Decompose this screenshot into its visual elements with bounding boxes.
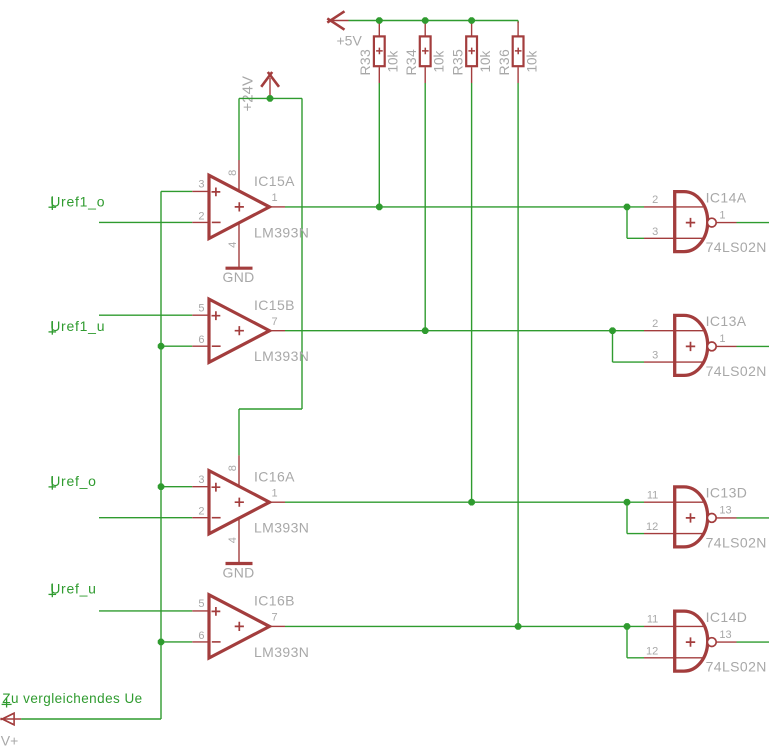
- junction IC16B output branch to gate: [624, 623, 631, 630]
- wire IC15A output row: [285, 206, 644, 208]
- ground: [223, 564, 255, 581]
- junction IC15A output branch to gate: [624, 204, 631, 211]
- svg-text:R36: R36: [496, 49, 512, 76]
- junction IC16A output with resistor line: [468, 499, 475, 506]
- junction IC15B output branch to gate: [609, 327, 616, 334]
- svg-text:LM393N: LM393N: [254, 644, 309, 660]
- svg-text:Zu vergleichendes Ue: Zu vergleichendes Ue: [2, 691, 142, 706]
- svg-text:6: 6: [198, 334, 204, 346]
- svg-text:10k: 10k: [432, 50, 447, 72]
- svg-text:1: 1: [719, 209, 725, 221]
- wire +5V rail: [349, 20, 519, 22]
- svg-text:1: 1: [719, 333, 725, 345]
- wire +24V right rail down: [301, 98, 303, 409]
- op-amp IC15B (LM393N): [192, 297, 309, 364]
- svg-text:1: 1: [272, 192, 278, 204]
- wire Ue vertical line: [160, 191, 162, 719]
- svg-text:IC13A: IC13A: [706, 313, 747, 329]
- svg-text:2: 2: [198, 506, 204, 518]
- svg-text:12: 12: [646, 645, 658, 657]
- svg-text:GND: GND: [223, 564, 255, 580]
- svg-text:10k: 10k: [478, 50, 493, 72]
- svg-text:R35: R35: [449, 49, 465, 76]
- svg-text:74LS02N: 74LS02N: [706, 239, 767, 255]
- svg-text:LM393N: LM393N: [254, 348, 309, 364]
- svg-text:7: 7: [272, 316, 278, 328]
- wire Uref_o to IC16A pin 2: [99, 517, 192, 519]
- svg-text:2: 2: [198, 210, 204, 222]
- svg-text:4: 4: [227, 537, 239, 543]
- svg-text:LM393N: LM393N: [254, 520, 309, 536]
- svg-text:5: 5: [198, 598, 204, 610]
- ground: [223, 268, 255, 285]
- svg-text:13: 13: [719, 505, 731, 517]
- svg-text:4: 4: [227, 242, 239, 248]
- svg-text:11: 11: [647, 489, 658, 501]
- wire Uref_u to IC16B pin 5: [99, 610, 192, 612]
- junction Ue to IC16B pin 6: [158, 639, 165, 646]
- svg-text:3: 3: [198, 474, 204, 486]
- wire IC15B output row: [285, 330, 644, 332]
- junction IC15A output with resistor line: [376, 204, 383, 211]
- junction on +5V rail at R35: [468, 17, 475, 24]
- wire IC13D output to edge: [737, 517, 769, 519]
- wire Ue to IC15B pin 6: [161, 345, 192, 347]
- svg-text:Uref_o: Uref_o: [50, 473, 97, 489]
- resistor R35 (10k): [449, 22, 493, 84]
- net label Uref1_u: [49, 318, 106, 335]
- +5V supply arrow: [327, 11, 348, 29]
- resistor R36 (10k): [496, 22, 540, 84]
- svg-text:IC15B: IC15B: [254, 297, 295, 313]
- wire rail corner down to R36: [517, 21, 519, 24]
- junction at +24V arrow: [267, 95, 274, 102]
- wire IC14A output to edge: [737, 222, 769, 224]
- resistor R34 (10k): [403, 22, 447, 84]
- wire Uref1_u to IC15B pin 5: [99, 314, 192, 316]
- wire Ue to IC16B pin 6: [161, 641, 192, 643]
- svg-text:13: 13: [719, 629, 731, 641]
- svg-text:74LS02N: 74LS02N: [706, 534, 767, 550]
- svg-text:IC13D: IC13D: [706, 485, 748, 501]
- NOR gate IC13D (74LS02N): [644, 485, 767, 551]
- wire branch down to lower gate input: [626, 626, 628, 657]
- svg-text:LM393N: LM393N: [254, 224, 309, 240]
- wire Ue top corner to IC15A pin 3: [161, 190, 192, 192]
- svg-text:74LS02N: 74LS02N: [706, 363, 767, 379]
- wire IC14D output to edge: [737, 641, 769, 643]
- svg-text:+5V: +5V: [337, 33, 363, 49]
- wire Uref1_o to IC15A pin 2: [99, 221, 192, 223]
- resistor R33 (10k): [357, 22, 401, 84]
- svg-text:7: 7: [272, 612, 278, 624]
- svg-text:IC14A: IC14A: [706, 189, 747, 205]
- V+ supply arrow: [1, 713, 22, 725]
- junction IC16B output with resistor line: [515, 623, 522, 630]
- svg-text:6: 6: [198, 630, 204, 642]
- wire from R36 down to output row: [517, 83, 519, 626]
- NOR gate IC14A (74LS02N): [644, 189, 767, 255]
- wire IC13A output to edge: [737, 345, 769, 347]
- svg-text:74LS02N: 74LS02N: [706, 659, 767, 675]
- junction on +5V rail at R33: [376, 17, 383, 24]
- op-amp IC15A (LM393N): [192, 160, 309, 268]
- svg-text:+24V: +24V: [240, 76, 257, 111]
- wire from R35 down to output row: [471, 83, 473, 502]
- wire IC16A output row: [285, 501, 644, 503]
- net label Uref_u: [49, 581, 97, 598]
- svg-text:10k: 10k: [386, 50, 401, 72]
- svg-text:11: 11: [647, 614, 658, 626]
- svg-text:Uref1_o: Uref1_o: [50, 193, 105, 209]
- junction IC15B output with resistor line: [422, 327, 429, 334]
- svg-text:3: 3: [652, 226, 658, 238]
- wire from R34 down to output row: [424, 83, 426, 331]
- wire branch down to lower gate input: [612, 331, 614, 362]
- svg-text:V+: V+: [1, 733, 19, 749]
- wire from R33 down to output row: [378, 83, 380, 207]
- svg-text:12: 12: [646, 521, 658, 533]
- svg-text:2: 2: [652, 318, 658, 330]
- svg-text:IC15A: IC15A: [254, 173, 295, 189]
- svg-text:IC16A: IC16A: [254, 469, 295, 485]
- junction Ue to IC16A pin 3: [158, 483, 165, 490]
- svg-text:R34: R34: [403, 49, 419, 76]
- svg-text:10k: 10k: [525, 50, 540, 72]
- junction IC16A output branch to gate: [624, 499, 631, 506]
- wire IC16B output row: [285, 625, 644, 627]
- +24V supply arrow: [261, 72, 279, 98]
- net label Zu vergleichendes Ue: [2, 691, 143, 708]
- wire Ue to IC16A pin 3: [161, 486, 192, 488]
- svg-text:3: 3: [198, 179, 204, 191]
- net label Uref_o: [49, 473, 97, 490]
- junction on +5V rail at R34: [422, 17, 429, 24]
- wire +24V horizontal: [239, 97, 302, 99]
- svg-text:GND: GND: [223, 269, 255, 285]
- svg-text:1: 1: [272, 487, 278, 499]
- svg-text:2: 2: [652, 194, 658, 206]
- wire +24V jog left: [239, 408, 302, 410]
- svg-text:8: 8: [227, 465, 239, 471]
- wire branch down to lower gate input: [626, 502, 628, 533]
- junction Ue to IC15B pin 6: [158, 343, 165, 350]
- NOR gate IC13A (74LS02N): [644, 313, 767, 379]
- svg-text:IC14D: IC14D: [706, 609, 748, 625]
- svg-text:3: 3: [652, 350, 658, 362]
- NOR gate IC14D (74LS02N): [644, 609, 767, 675]
- wire +24V down to IC15A pin 8: [238, 98, 240, 160]
- svg-text:5: 5: [198, 303, 204, 315]
- wire bottom horizontal to V+ arrow: [21, 718, 161, 720]
- op-amp IC16B (LM393N): [192, 593, 309, 660]
- svg-text:R33: R33: [357, 49, 373, 76]
- svg-text:8: 8: [227, 170, 239, 176]
- svg-text:IC16B: IC16B: [254, 593, 295, 609]
- wire branch down to lower gate input: [626, 207, 628, 238]
- svg-text:Uref1_u: Uref1_u: [50, 318, 105, 334]
- op-amp IC16A (LM393N): [192, 455, 309, 563]
- net label Uref1_o: [49, 193, 106, 210]
- wire +24V down to IC16A pin 8: [238, 409, 240, 455]
- svg-text:Uref_u: Uref_u: [50, 581, 97, 597]
